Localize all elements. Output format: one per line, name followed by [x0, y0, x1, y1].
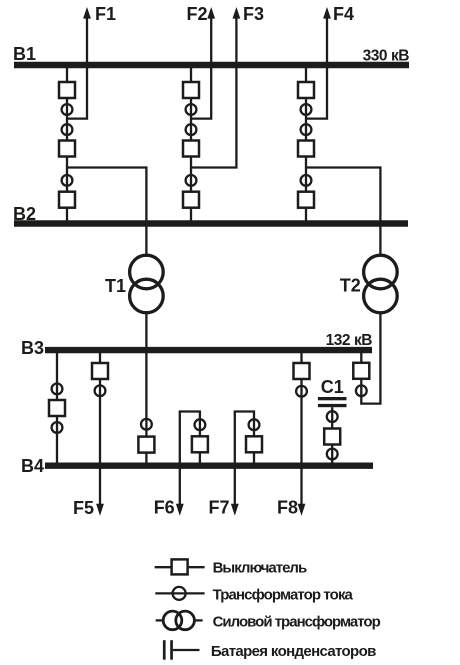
- legend power transformer symbol: [156, 619, 164, 621]
- wire: T1 bay branch B3 to B4 at x146: [145, 350, 147, 465]
- feeder F8 arrowhead: [298, 504, 306, 516]
- CT: feeder F8 bay: [296, 386, 307, 397]
- wire: branch 3 vertical B1 to B2: [305, 64, 307, 224]
- breaker: T1 bay: [138, 437, 154, 453]
- svg-text:B2: B2: [13, 204, 36, 224]
- wire: tap from branch 2 to feeder F3 (crosses bus B1): [191, 16, 236, 168]
- CT: branch 1 third: [62, 175, 73, 186]
- svg-text:330 кВ: 330 кВ: [363, 48, 410, 65]
- wire: T2 down, left and up into its breaker bay on B3: [361, 313, 380, 404]
- breaker: branch 1 middle: [59, 141, 75, 157]
- wire: tap from branch 2 to feeder F2 (crosses bus B1): [191, 16, 211, 119]
- svg-text:132 кВ: 132 кВ: [326, 332, 373, 349]
- svg-text:F5: F5: [73, 498, 94, 518]
- power transformer T2: [364, 255, 398, 289]
- breaker: T2 bay: [353, 363, 369, 379]
- bus B2: [14, 220, 408, 226]
- svg-text:F4: F4: [333, 4, 354, 24]
- CT: T1 bay: [141, 419, 152, 430]
- wire: branch 2 vertical B1 to B2: [190, 64, 192, 224]
- svg-text:C1: C1: [321, 377, 344, 397]
- bus B4: [45, 463, 373, 469]
- CT: coupler bay lower: [52, 422, 63, 433]
- svg-text:Батарея конденсаторов: Батарея конденсаторов: [211, 643, 376, 660]
- CT: branch 1 first: [62, 104, 73, 115]
- CT: C1 bay upper: [327, 411, 338, 422]
- breaker: C1 bay: [324, 429, 340, 445]
- svg-text:F3: F3: [243, 4, 264, 24]
- capacitor bank C1 top plate: [318, 397, 347, 400]
- wire: branch 1 vertical B1 to B2: [66, 64, 68, 224]
- wire: bus coupler branch B3 to B4 at x57: [56, 350, 58, 465]
- legend breaker symbol: [155, 566, 205, 568]
- wire: tap from branch 3 down to transformer T2 (crosses bus B2): [306, 168, 380, 256]
- feeder F3 arrowhead: [233, 7, 241, 19]
- wire: tap from branch 3 to feeder F4 (crosses bus B1): [306, 16, 327, 119]
- wire: tap from branch 1 down to transformer T1 (crosses bus B2): [67, 168, 146, 256]
- breaker: feeder F5 bay: [92, 363, 108, 379]
- svg-text:B1: B1: [13, 44, 36, 64]
- feeder F1 arrowhead: [83, 7, 91, 19]
- capacitor bank C1 bottom plate: [318, 404, 347, 407]
- svg-text:Силовой трансформатор: Силовой трансформатор: [213, 613, 381, 630]
- svg-text:T1: T1: [105, 276, 126, 296]
- CT: branch 3 second: [301, 124, 312, 135]
- CT: feeder F6 bay: [195, 419, 206, 430]
- svg-text:B3: B3: [21, 338, 44, 358]
- legend current transformer symbol: [155, 592, 204, 594]
- CT: T2 bay: [356, 385, 367, 396]
- bus B3 (132 kV): [45, 347, 372, 353]
- svg-text:F1: F1: [95, 4, 116, 24]
- wire: feeder F5 branch from B3 (crosses bus B4): [99, 350, 101, 505]
- feeder F4 arrowhead: [323, 7, 331, 19]
- breaker: branch 2 middle: [183, 141, 199, 157]
- breaker: coupler bay: [49, 400, 65, 416]
- power transformer T1: [130, 255, 164, 289]
- CT: feeder F5 bay: [95, 385, 106, 396]
- breaker: branch 3 lower: [298, 192, 314, 208]
- svg-text:F7: F7: [209, 498, 230, 518]
- feeder F6 arrowhead: [176, 504, 184, 516]
- wire: T1 to bus B3: [145, 313, 147, 352]
- CT: branch 2 first: [186, 104, 197, 115]
- svg-text:T2: T2: [340, 276, 361, 296]
- CT: branch 1 second: [62, 124, 73, 135]
- svg-text:F6: F6: [154, 498, 175, 518]
- feeder F2 arrowhead: [207, 7, 215, 19]
- svg-text:F2: F2: [186, 4, 207, 24]
- CT: branch 3 third: [301, 175, 312, 186]
- breaker: branch 2 upper: [183, 82, 199, 98]
- wire: feeder F7 loop through breaker bay to B4 (crosses bus B4): [235, 412, 254, 506]
- CT: C1 bay lower: [327, 449, 338, 460]
- svg-text:Трансформатор тока: Трансформатор тока: [213, 586, 354, 603]
- breaker: branch 1 lower: [59, 192, 75, 208]
- breaker: feeder F7 bay: [246, 436, 262, 452]
- svg-text:Выключатель: Выключатель: [213, 560, 307, 577]
- bus B1 (330 kV): [14, 62, 409, 68]
- breaker: feeder F8 bay: [294, 363, 310, 379]
- svg-text:B4: B4: [21, 456, 44, 476]
- CT: branch 2 third: [186, 175, 197, 186]
- feeder F5 arrowhead: [96, 504, 104, 516]
- CT: branch 2 second: [186, 124, 197, 135]
- wire: C1 to bus B4: [331, 407, 333, 465]
- svg-text:F8: F8: [277, 498, 298, 518]
- breaker: branch 1 upper: [59, 82, 75, 98]
- breaker: branch 2 lower: [183, 192, 199, 208]
- wire: feeder F6 loop through breaker bay to B4 (crosses bus B4): [180, 412, 200, 506]
- legend capacitor bank symbol: [163, 640, 166, 660]
- breaker: branch 3 upper: [298, 82, 314, 98]
- breaker: feeder F6 bay: [192, 436, 208, 452]
- CT: branch 3 first: [301, 104, 312, 115]
- wire: tap from branch 1 to feeder F1 (crosses bus B1): [67, 16, 87, 119]
- CT: coupler bay upper: [52, 384, 63, 395]
- feeder F7 arrowhead: [231, 504, 239, 516]
- CT: feeder F7 bay: [249, 419, 260, 430]
- wire: feeder F8 branch from B3 (crosses bus B4): [300, 350, 302, 505]
- breaker: branch 3 middle: [298, 141, 314, 157]
